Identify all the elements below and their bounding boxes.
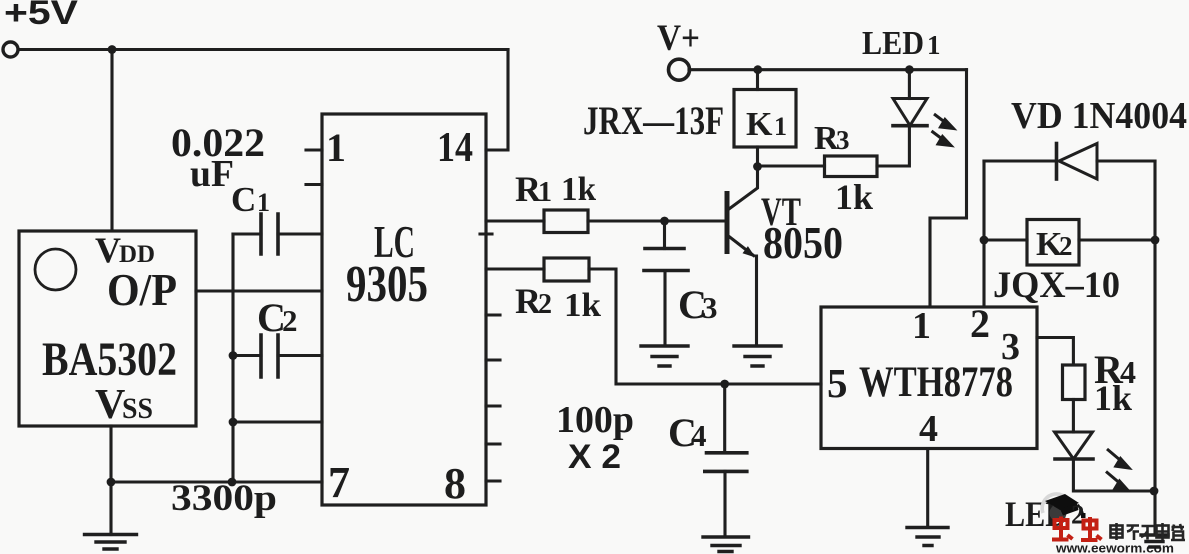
wire K1 to V+ rail bbox=[756, 70, 759, 90]
wire +5V rail bbox=[19, 48, 509, 51]
svg-text:O/P: O/P bbox=[107, 264, 177, 315]
svg-text:www.eeworm.com: www.eeworm.com bbox=[1055, 541, 1174, 554]
diode VD 1N4004 bbox=[984, 159, 1056, 162]
ground Vss bbox=[85, 535, 137, 550]
terminal V+ bbox=[669, 59, 690, 80]
junction VD/K2 left bbox=[980, 236, 989, 245]
wire C1-C2 left bus vertical x233 bbox=[231, 234, 234, 482]
watermark graduation cap bbox=[1045, 494, 1079, 510]
svg-text:LED: LED bbox=[862, 25, 924, 62]
ground WTH pin4 bbox=[907, 528, 948, 546]
svg-text:9305: 9305 bbox=[346, 256, 428, 313]
transistor VT 8050 bbox=[725, 194, 730, 252]
LED1 bbox=[908, 70, 911, 99]
resistor R2 bbox=[486, 267, 544, 270]
svg-text:uF: uF bbox=[190, 153, 234, 195]
capacitor C1 bbox=[233, 232, 322, 235]
svg-text:8050: 8050 bbox=[763, 217, 843, 268]
svg-text:14: 14 bbox=[437, 125, 473, 171]
svg-text:2: 2 bbox=[538, 289, 552, 320]
terminal +5V bbox=[3, 42, 18, 57]
wire VD left down to WTH pin2 bbox=[982, 161, 985, 307]
junction V+/LED1 bbox=[905, 65, 914, 74]
svg-text:3: 3 bbox=[836, 125, 850, 155]
svg-text:1: 1 bbox=[326, 125, 346, 170]
pin stub left pin1 bbox=[306, 148, 322, 151]
junction bus/C2 bbox=[229, 351, 238, 360]
ground C4 bbox=[703, 537, 749, 552]
pin stubs right unconnected bbox=[480, 234, 500, 481]
arrows LED2 bbox=[1107, 449, 1120, 460]
junction +5V/Vdd bbox=[108, 45, 117, 54]
wire R2 to WTH8778 pin5 bbox=[589, 269, 821, 384]
watermark bbox=[1042, 494, 1185, 554]
junction 3300p/bus bbox=[228, 478, 237, 487]
wire right vertical bus bbox=[1153, 161, 1156, 491]
svg-text:+5V: +5V bbox=[4, 0, 78, 32]
svg-text:1k: 1k bbox=[835, 177, 873, 217]
wire right bus ground drop bbox=[1153, 491, 1156, 535]
svg-text:4: 4 bbox=[919, 408, 938, 450]
ground emitter bbox=[734, 346, 781, 366]
IC LC9305 box bbox=[322, 114, 486, 505]
svg-text:BA5302: BA5302 bbox=[42, 333, 177, 386]
watermark logo head bbox=[1050, 505, 1067, 522]
wire O/P to LC9305 bbox=[196, 289, 322, 292]
junction R1/C3/base bbox=[660, 217, 669, 226]
svg-text:7: 7 bbox=[328, 458, 350, 507]
svg-text:JQX–10: JQX–10 bbox=[993, 265, 1120, 306]
svg-text:3: 3 bbox=[702, 290, 718, 325]
wire WTH pin4 ground drop bbox=[926, 449, 929, 528]
IC WTH8778 box bbox=[821, 307, 1037, 449]
IC BA5302 box bbox=[19, 231, 196, 426]
wire V+ rail bbox=[689, 68, 967, 71]
svg-text:3300p: 3300p bbox=[171, 478, 277, 519]
svg-text:1: 1 bbox=[774, 112, 787, 141]
LED2 bbox=[1055, 432, 1093, 459]
svg-text:100p: 100p bbox=[556, 399, 634, 441]
svg-text:K: K bbox=[746, 106, 773, 143]
arrows LED1 bbox=[934, 114, 946, 123]
svg-text:1: 1 bbox=[912, 305, 931, 347]
ground right bus bbox=[1141, 535, 1168, 547]
svg-text:1: 1 bbox=[927, 30, 941, 60]
wire +5V down to BA5302 Vdd bbox=[110, 50, 113, 232]
svg-text:1k: 1k bbox=[564, 287, 601, 324]
wire V+ rail to WTH pin1 jog bbox=[930, 70, 967, 307]
LED light arrows bbox=[932, 114, 1130, 491]
svg-text:1: 1 bbox=[538, 177, 552, 208]
junction pin5/C4 bbox=[720, 380, 729, 389]
wire 3300p line to pin 7 bbox=[111, 480, 322, 483]
svg-text:WTH8778: WTH8778 bbox=[859, 359, 1013, 406]
junction LED2/right bus bbox=[1150, 487, 1159, 496]
svg-text:V: V bbox=[95, 382, 125, 428]
svg-text:1k: 1k bbox=[1094, 378, 1132, 418]
arrowhead emitter bbox=[743, 246, 756, 257]
junction bus/pin bbox=[229, 418, 238, 427]
wire Vss down bbox=[109, 426, 112, 482]
svg-text:X 2: X 2 bbox=[568, 438, 621, 476]
wire collector to K1 bbox=[756, 147, 759, 167]
svg-text:SS: SS bbox=[122, 392, 153, 425]
wire WTH pin3 to R4 bbox=[1037, 338, 1073, 366]
watermark gray site name chars bbox=[1111, 523, 1186, 540]
svg-text:V+: V+ bbox=[657, 18, 700, 59]
resistor R3 bbox=[758, 164, 825, 167]
svg-text:2: 2 bbox=[282, 303, 298, 338]
pin stub right pin14 jog to +5V rail bbox=[486, 50, 508, 151]
svg-text:1: 1 bbox=[257, 188, 270, 217]
svg-text:C: C bbox=[231, 180, 256, 219]
junction VD/K2 right bbox=[1151, 236, 1160, 245]
svg-text:4: 4 bbox=[691, 418, 707, 453]
svg-text:1k: 1k bbox=[561, 171, 596, 208]
relay K2 box bbox=[984, 238, 1155, 241]
capacitor C4 bbox=[723, 384, 726, 453]
svg-text:8: 8 bbox=[444, 459, 466, 508]
junction V+/K1 bbox=[753, 65, 762, 74]
resistor R4 bbox=[1063, 365, 1086, 400]
junction K1/collector/R3 bbox=[753, 162, 762, 171]
relay K1 box bbox=[734, 90, 796, 148]
capacitor C2 bbox=[233, 354, 322, 357]
ground C3 bbox=[641, 346, 688, 366]
svg-text:5: 5 bbox=[827, 360, 848, 406]
junction Vss/3300p bbox=[107, 478, 116, 487]
capacitor C3 bbox=[663, 221, 666, 249]
svg-text:2: 2 bbox=[970, 301, 990, 346]
resistor R1 bbox=[486, 219, 544, 222]
wire x233 bus to LC9305 bbox=[233, 420, 322, 423]
watermark red chars bbox=[1052, 517, 1102, 541]
transistor VT base wire bbox=[665, 219, 725, 222]
svg-text:2: 2 bbox=[1059, 231, 1073, 261]
svg-text:JRX—13F: JRX—13F bbox=[583, 98, 724, 143]
svg-text:VD 1N4004: VD 1N4004 bbox=[1011, 95, 1187, 137]
BA5302 corner circle bbox=[35, 249, 76, 290]
wire Vss ground drop bbox=[109, 482, 112, 535]
pin stub left unmarked bbox=[306, 183, 322, 186]
